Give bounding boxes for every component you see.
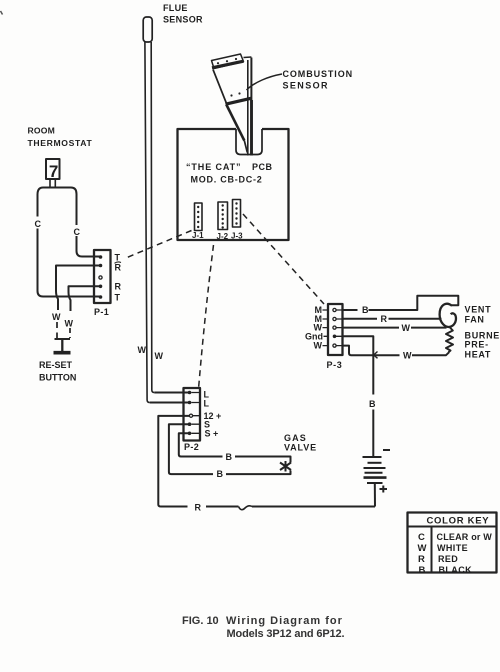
dashed link J-1 to P-1 — [127, 231, 192, 258]
label FLUE SENSOR — [163, 3, 203, 25]
svg-text:HEAT: HEAT — [465, 350, 492, 360]
color key box — [408, 513, 497, 573]
svg-text:GAS: GAS — [284, 433, 307, 443]
svg-text:C: C — [35, 219, 42, 229]
wire hop W1 — [56, 291, 58, 310]
caption — [182, 615, 344, 640]
svg-text:P-2: P-2 — [184, 442, 199, 452]
hop mark at crossing — [374, 352, 378, 359]
svg-text:W: W — [403, 351, 412, 361]
label COLOR KEY — [418, 516, 493, 577]
svg-text:MOD. CB-DC-2: MOD. CB-DC-2 — [191, 175, 263, 185]
svg-text:T: T — [115, 293, 121, 303]
svg-text:L: L — [204, 399, 210, 409]
gas valve symbol V1 — [280, 461, 291, 472]
wire upper B run — [181, 457, 291, 463]
label ROOM THERMOSTAT — [28, 126, 93, 149]
svg-text:VENT: VENT — [465, 305, 492, 315]
svg-text:Wiring Diagram for: Wiring Diagram for — [226, 615, 343, 627]
svg-text:C: C — [418, 532, 425, 543]
wire lower B run — [171, 471, 291, 475]
label COMBUSTION SENSOR — [283, 69, 354, 91]
battery BT1 — [363, 457, 387, 483]
dashed W2 to re-set — [69, 328, 71, 338]
page edge tick — [1, 11, 3, 15]
battery minus — [383, 449, 390, 451]
svg-text:P-1: P-1 — [94, 307, 109, 317]
dashed link J-3 to P-3 — [243, 214, 324, 304]
svg-text:VALVE: VALVE — [284, 443, 317, 453]
svg-text:THERMOSTAT: THERMOSTAT — [28, 138, 93, 148]
wire break squiggle — [239, 506, 253, 510]
label GAS VALVE — [284, 433, 317, 453]
svg-text:SENSOR: SENSOR — [283, 81, 329, 91]
re-set button — [55, 338, 71, 340]
connector J-3 — [233, 200, 241, 228]
svg-text:B: B — [362, 305, 369, 315]
combustion sensor top plate — [212, 54, 244, 69]
connector P-2 — [184, 388, 201, 441]
wire from P-1 pin4 (W) — [69, 286, 101, 292]
svg-text:PRE-: PRE- — [465, 340, 489, 350]
wire P-2 pin5 (S+) to upper B — [179, 433, 190, 456]
wire battery to R run — [374, 483, 376, 507]
combustion sensor body — [213, 70, 227, 104]
svg-text:W: W — [155, 351, 164, 361]
wire C (left) — [37, 195, 39, 217]
vent fan M1 — [440, 304, 456, 327]
combustion sensor rivets (mid row) — [230, 92, 240, 96]
dashed W1 to re-set — [56, 322, 58, 338]
connector J-1 — [195, 203, 203, 231]
svg-text:W: W — [314, 341, 323, 351]
label RE-SET BUTTON — [39, 360, 76, 383]
dashed link J-2 to P-2 — [199, 245, 214, 389]
svg-text:R: R — [195, 503, 202, 513]
wire from P-1 pin2 (W) — [56, 266, 101, 292]
label "THE CAT" PCB — [186, 162, 273, 185]
svg-text:J-3: J-3 — [231, 232, 243, 241]
wire B from P-3 pin1 to vent fan — [343, 296, 459, 310]
wire R from P-3 pin2 to fan — [343, 318, 442, 320]
svg-text:WHITE: WHITE — [437, 543, 468, 553]
wire W to P-2 pin 2 — [150, 402, 190, 404]
labels L L 12+ S S+ — [204, 390, 222, 439]
connector J-2 — [218, 202, 228, 230]
svg-text:PCB: PCB — [252, 162, 273, 172]
combustion sensor mid band — [226, 98, 252, 104]
svg-text:B: B — [217, 469, 224, 479]
combustion sensor funnel — [226, 105, 244, 141]
wire P-2 pin3 (12+) to R wire — [158, 416, 189, 507]
thermostat neck — [50, 179, 55, 187]
leader line to combustion sensor — [247, 74, 283, 90]
svg-text:CLEAR or W: CLEAR or W — [437, 532, 493, 542]
svg-text:RE-SET: RE-SET — [39, 360, 73, 370]
wire from P-1 pin5 to C — [43, 296, 101, 298]
wire hop W2 — [69, 292, 71, 311]
svg-text:W: W — [52, 312, 61, 322]
svg-text:“THE CAT”: “THE CAT” — [186, 162, 241, 172]
svg-text:C: C — [74, 227, 81, 237]
svg-text:R: R — [115, 282, 122, 292]
svg-text:R: R — [418, 554, 425, 565]
svg-text:R: R — [115, 263, 122, 273]
svg-text:J-2: J-2 — [217, 232, 229, 241]
wire Gnd from P-3 pin4 to battery — [343, 336, 374, 456]
svg-text:B: B — [419, 565, 426, 576]
flue sensor probe cap — [143, 17, 152, 42]
svg-text:RED: RED — [438, 554, 458, 564]
connector P-1 — [94, 250, 111, 303]
svg-text:R: R — [381, 314, 388, 324]
svg-text:FAN: FAN — [465, 315, 485, 325]
combustion sensor rivets (top row) — [217, 58, 237, 64]
svg-text:7: 7 — [49, 162, 58, 181]
svg-text:W: W — [138, 345, 147, 355]
svg-text:COLOR KEY: COLOR KEY — [427, 516, 490, 527]
svg-text:ROOM: ROOM — [28, 126, 56, 136]
svg-text:S +: S + — [205, 429, 219, 439]
labels M M W Gnd W — [305, 305, 323, 351]
svg-text:P-3: P-3 — [327, 360, 343, 370]
flue sensor rod (two wires W) — [145, 42, 150, 403]
svg-text:W: W — [402, 323, 411, 333]
connector P-3 — [328, 304, 343, 355]
svg-text:COMBUSTION: COMBUSTION — [283, 69, 354, 79]
svg-text:T: T — [115, 253, 121, 263]
wire R bottom run — [161, 506, 375, 508]
svg-text:SENSOR: SENSOR — [163, 15, 203, 25]
PCB U1 "THE CAT" outline — [178, 129, 289, 240]
PCB probe slot — [236, 129, 262, 155]
svg-text:B: B — [369, 399, 376, 409]
svg-text:W: W — [65, 319, 74, 329]
wire W to P-2 pin 1 — [154, 392, 189, 394]
svg-text:BLACK: BLACK — [439, 565, 473, 575]
wire P-2 pin4 (S) to lower B — [169, 424, 190, 474]
label BURNER PRE-HEAT — [465, 331, 500, 360]
combustion sensor probe shaft — [247, 60, 249, 156]
burner pre-heat coil R1 — [446, 327, 453, 352]
svg-text:FIG. 10: FIG. 10 — [182, 615, 219, 627]
label VENT FAN — [465, 305, 492, 325]
wire C (right) — [76, 194, 78, 225]
labels T R R T — [115, 253, 122, 303]
svg-text:B: B — [226, 452, 233, 462]
thermostat head — [46, 159, 60, 179]
wire W from P-3 pin3 to heater — [343, 327, 447, 329]
wire W from P-3 pin5 to heater bottom — [343, 346, 450, 356]
svg-text:J-1: J-1 — [192, 231, 204, 240]
svg-text:FLUE: FLUE — [163, 3, 188, 13]
svg-text:W: W — [418, 543, 427, 554]
svg-text:Models 3P12 and 6P12.: Models 3P12 and 6P12. — [227, 628, 345, 640]
svg-text:BUTTON: BUTTON — [39, 373, 76, 383]
thermostat body top — [38, 188, 77, 195]
battery plus — [380, 486, 388, 493]
